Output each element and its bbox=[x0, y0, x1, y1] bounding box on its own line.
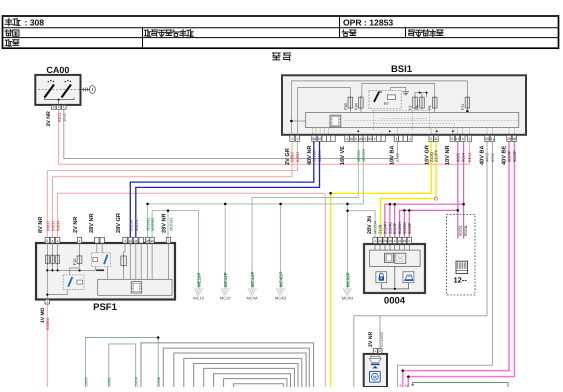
wire B58B0 red: PSF1 bottom pin1 down bbox=[46, 304, 48, 387]
0004 pin feeds bbox=[375, 244, 409, 251]
wire BM33 red: BSI1 2V GR pin1 to PSF1 pin4 bbox=[52, 142, 292, 238]
svg-text:MC4AP: MC4AP bbox=[250, 272, 255, 287]
bottom grey loop wire 2 bbox=[163, 348, 309, 387]
svg-text:34: 34 bbox=[368, 137, 372, 141]
schematic title (principle) bbox=[272, 53, 280, 60]
svg-text:2: 2 bbox=[124, 239, 126, 243]
svg-text:2: 2 bbox=[297, 137, 299, 141]
svg-text:8V NR: 8V NR bbox=[38, 217, 44, 233]
0004 lock icon bbox=[376, 272, 387, 283]
svg-text:11: 11 bbox=[398, 239, 402, 243]
svg-text:4: 4 bbox=[462, 137, 464, 141]
0004 IC symbol bbox=[384, 253, 393, 262]
svg-text:2V NR: 2V NR bbox=[368, 331, 374, 347]
key symbol bbox=[81, 86, 95, 94]
svg-text:8411M6D: 8411M6D bbox=[380, 331, 384, 347]
svg-text:F5: F5 bbox=[428, 105, 432, 109]
BSI1 internal wiring bbox=[291, 81, 467, 135]
body computer BSI1 bbox=[282, 64, 526, 135]
svg-text:C088: C088 bbox=[108, 377, 112, 386]
svg-text:2: 2 bbox=[374, 239, 376, 243]
bottom grey loop wire 5 bbox=[194, 364, 298, 388]
PSF1 bottom pin 1 bbox=[45, 300, 50, 305]
wire M05M3 from PSF1 pin7 bbox=[167, 211, 169, 238]
svg-text:29: 29 bbox=[383, 239, 387, 243]
fuse F5 bbox=[428, 96, 437, 110]
wire MC35I green: BSI1 to ground g3 bbox=[252, 142, 358, 289]
BSI1 dashed pin links bbox=[313, 128, 515, 135]
svg-text:20: 20 bbox=[485, 137, 489, 141]
svg-text:MC4D: MC4D bbox=[275, 296, 286, 301]
svg-text:12: 12 bbox=[129, 239, 133, 243]
svg-text:9023P: 9023P bbox=[512, 150, 517, 162]
svg-text:3: 3 bbox=[53, 105, 55, 109]
bottom grey loop wire 3 bbox=[174, 353, 306, 387]
wire 9024P pink bbox=[403, 142, 509, 387]
motor labels bbox=[368, 331, 384, 347]
CA00 labels bbox=[46, 111, 67, 127]
wire BM37 red: BSI1 2V GR pin2 to PSF1 pin5 bbox=[47, 142, 297, 238]
wire 9025 magenta: BSI1 to 12- connector and 0004 bbox=[457, 142, 459, 239]
wire Z12Q yellow: BSI1 to bottom bbox=[331, 142, 432, 387]
fuse F4 bbox=[416, 96, 425, 110]
fuse F30 bbox=[344, 96, 353, 110]
wire Z12PX yellow: BSI1 to 0004 pin14 bbox=[381, 142, 437, 238]
wire 9817A blue bbox=[136, 142, 320, 238]
svg-text:Q: Q bbox=[405, 384, 408, 388]
svg-text:2V NR: 2V NR bbox=[73, 217, 79, 233]
svg-text:3V NR: 3V NR bbox=[46, 111, 52, 127]
wire branch to 0004 pin2 bbox=[348, 211, 376, 238]
svg-text:M56M3: M56M3 bbox=[150, 217, 155, 231]
PSF1 pin row bbox=[45, 237, 171, 243]
svg-text:MC12P: MC12P bbox=[223, 272, 228, 287]
svg-text:9024: 9024 bbox=[461, 152, 466, 162]
CA00 pins 3 2 1 bbox=[51, 105, 66, 109]
svg-text:2: 2 bbox=[58, 105, 60, 109]
BSI1 internal ground bbox=[403, 92, 409, 95]
junction dot yellow bbox=[329, 192, 332, 195]
wire 4469 grey with branch to motor pin2 bbox=[354, 142, 487, 387]
BSI1 connector IC symbol bbox=[330, 115, 341, 127]
svg-text:M05M3: M05M3 bbox=[168, 217, 173, 231]
0004 internal top strip bbox=[370, 250, 421, 266]
PSF1 wire labels bbox=[45, 217, 173, 231]
svg-text:32: 32 bbox=[350, 137, 354, 141]
header row3: component bbox=[5, 39, 11, 46]
svg-text:1: 1 bbox=[79, 239, 81, 243]
0004 pin row bbox=[373, 237, 412, 243]
wire M56M3 green line B to ground g1 bbox=[152, 211, 199, 289]
svg-text:9017A: 9017A bbox=[134, 219, 139, 231]
svg-text:9024L: 9024L bbox=[463, 224, 468, 236]
bottom grey loop wire 8 bbox=[224, 379, 287, 387]
ground MC0H bbox=[342, 272, 353, 300]
PSF1 relay PT1 bbox=[91, 253, 110, 271]
svg-text:C40B: C40B bbox=[157, 377, 161, 387]
roof control unit 0004 bbox=[364, 244, 425, 307]
svg-text:9816A: 9816A bbox=[312, 150, 317, 162]
svg-text:F10: F10 bbox=[73, 259, 77, 266]
svg-text:40: 40 bbox=[359, 137, 363, 141]
svg-text:BM34: BM34 bbox=[56, 220, 61, 231]
svg-text:1: 1 bbox=[291, 137, 293, 141]
svg-text:28: 28 bbox=[507, 137, 511, 141]
ignition switch CA00 bbox=[35, 65, 91, 105]
PSF1 pin group labels bbox=[38, 213, 167, 233]
wire 8096 grey bbox=[397, 142, 492, 387]
PSF1 fuse SH bbox=[121, 255, 127, 268]
svg-text:BSI1: BSI1 bbox=[391, 64, 413, 75]
svg-text:8: 8 bbox=[365, 137, 367, 141]
svg-text:10: 10 bbox=[150, 239, 154, 243]
svg-text:1640: 1640 bbox=[62, 112, 67, 122]
BSI1 lower connector strip bbox=[306, 112, 519, 127]
BSI1 pin group labels bbox=[285, 145, 507, 165]
svg-text:MC10: MC10 bbox=[220, 296, 231, 301]
bottom grey loop wire 1 bbox=[141, 343, 314, 387]
bottom grey loop wire 9 bbox=[234, 384, 284, 387]
svg-text:F2: F2 bbox=[409, 105, 413, 109]
svg-text:9024P: 9024P bbox=[507, 150, 512, 162]
wire 9023P pink bbox=[408, 142, 514, 387]
svg-text:C40A: C40A bbox=[135, 377, 139, 387]
0004 internal bus bbox=[381, 266, 408, 289]
motor icon bbox=[370, 371, 381, 382]
PSF1 fuses MF5 MF8 MF1 bbox=[45, 254, 49, 265]
svg-text:PSF1: PSF1 bbox=[93, 302, 117, 313]
svg-text:MC0H: MC0H bbox=[342, 296, 353, 301]
svg-text:11: 11 bbox=[491, 137, 495, 141]
svg-text:4: 4 bbox=[408, 239, 410, 243]
svg-text:4: 4 bbox=[52, 239, 54, 243]
fuse F2 bbox=[409, 96, 418, 110]
fuse F34 bbox=[354, 96, 363, 110]
svg-text:38: 38 bbox=[513, 137, 517, 141]
PSF1 internal wiring bbox=[47, 243, 168, 300]
svg-text:4469: 4469 bbox=[485, 152, 490, 162]
svg-text:4: 4 bbox=[374, 137, 376, 141]
svg-text:7: 7 bbox=[168, 239, 170, 243]
svg-text:F30: F30 bbox=[344, 103, 348, 110]
svg-text:B4M7: B4M7 bbox=[295, 151, 300, 162]
motor connector symbol bbox=[369, 354, 381, 362]
svg-text:36: 36 bbox=[312, 137, 316, 141]
svg-text:28: 28 bbox=[146, 239, 150, 243]
svg-text:CA00: CA00 bbox=[46, 65, 69, 75]
svg-text:5: 5 bbox=[46, 239, 48, 243]
engine fusebox PSF1 bbox=[36, 243, 175, 313]
ground MC4A bbox=[247, 272, 258, 301]
svg-text:12--: 12-- bbox=[454, 276, 468, 285]
ground MC10 bbox=[193, 273, 204, 301]
svg-text:B0B3: B0B3 bbox=[290, 151, 295, 162]
svg-text:9025L: 9025L bbox=[457, 224, 462, 236]
svg-text:Z12PX: Z12PX bbox=[434, 149, 439, 162]
svg-text:28V NR: 28V NR bbox=[161, 213, 167, 233]
BSI1 relay R7 bbox=[369, 90, 401, 109]
svg-text:28V NR: 28V NR bbox=[89, 213, 95, 233]
roof motor unit bbox=[364, 354, 387, 387]
svg-text:MC4A: MC4A bbox=[247, 296, 258, 301]
svg-text:6: 6 bbox=[394, 239, 396, 243]
svg-text:9365: 9365 bbox=[395, 152, 400, 162]
svg-text:11: 11 bbox=[434, 137, 438, 141]
svg-text:9025F: 9025F bbox=[407, 222, 412, 234]
bottom green loop wire C004 bbox=[85, 338, 158, 388]
svg-text:MC10: MC10 bbox=[193, 296, 204, 301]
ground MC10 bbox=[220, 272, 231, 300]
PSF1 connector IC symbol bbox=[131, 282, 142, 293]
bottom grey loop wire 7 bbox=[214, 374, 291, 387]
motor pins bbox=[373, 349, 382, 354]
svg-text:F34: F34 bbox=[354, 103, 358, 110]
svg-text:BE11: BE11 bbox=[467, 152, 472, 162]
svg-text:MC4DP: MC4DP bbox=[279, 272, 284, 287]
svg-text:14: 14 bbox=[378, 239, 382, 243]
svg-text:6: 6 bbox=[469, 137, 471, 141]
bottom grey loop wire 4 bbox=[184, 358, 302, 387]
svg-text:8: 8 bbox=[355, 137, 357, 141]
PSF1 lower connector strip bbox=[98, 279, 172, 295]
PSF1 bottom labels bbox=[40, 307, 50, 330]
svg-text:: 308: : 308 bbox=[25, 18, 45, 28]
wire 9024 magenta: BSI1 to 12- connector and 0004 bbox=[463, 142, 465, 239]
wire 1640 grey: CA00 pin1 to BSI1 10V BA pin bbox=[64, 109, 398, 158]
svg-text:1: 1 bbox=[63, 105, 65, 109]
svg-text:11: 11 bbox=[134, 239, 138, 243]
svg-text:M: M bbox=[373, 374, 377, 379]
svg-text:19: 19 bbox=[388, 239, 392, 243]
wire BM34 red long: PSF1 pin1 across to bottom right bbox=[58, 193, 323, 237]
intermediate connector 12 bbox=[447, 215, 476, 296]
svg-text:16V VE: 16V VE bbox=[340, 146, 346, 165]
svg-text:ME10P: ME10P bbox=[197, 273, 202, 287]
svg-text:9817A: 9817A bbox=[317, 150, 322, 162]
svg-text:F4: F4 bbox=[416, 105, 420, 109]
ground MC4D bbox=[275, 272, 286, 301]
svg-text:C004: C004 bbox=[84, 377, 88, 386]
svg-text:R7: R7 bbox=[384, 102, 389, 106]
svg-text:0004: 0004 bbox=[384, 296, 406, 307]
header table bbox=[3, 16, 559, 48]
wire BE11 red: CA00 pin2 to BSI1 10V NR pin bbox=[59, 109, 470, 164]
bottom right green wire bbox=[413, 383, 508, 387]
BSI1 wire labels bbox=[290, 149, 517, 162]
svg-text:4: 4 bbox=[396, 137, 398, 141]
svg-text:37: 37 bbox=[318, 137, 322, 141]
BSI1 lower dashed detail bbox=[372, 110, 455, 131]
svg-text:B58B0: B58B0 bbox=[45, 317, 50, 330]
svg-text:1: 1 bbox=[46, 300, 48, 304]
svg-text:8096: 8096 bbox=[490, 152, 495, 162]
svg-text:6: 6 bbox=[451, 137, 453, 141]
svg-text:F11: F11 bbox=[461, 104, 465, 110]
svg-text:3: 3 bbox=[346, 137, 348, 141]
svg-text:12: 12 bbox=[456, 137, 460, 141]
splice circle on Z12PX bbox=[435, 197, 438, 200]
bottom grey loop wire 6 bbox=[204, 368, 295, 387]
svg-text:28V GR: 28V GR bbox=[116, 213, 122, 233]
header row2: scope / protection and doors / function / folding roof bbox=[5, 30, 443, 37]
wire 9816A blue bbox=[130, 142, 313, 238]
0004 diag box bbox=[395, 253, 406, 263]
PSF1 fuse F10 bbox=[73, 254, 82, 265]
0004 roof icon bbox=[403, 272, 414, 283]
svg-text:16: 16 bbox=[403, 239, 407, 243]
BSI1 pin row bbox=[290, 135, 517, 141]
bottom green loop wire C088 bbox=[109, 344, 136, 387]
svg-text:MC66P: MC66P bbox=[345, 272, 350, 287]
svg-text:MC35II: MC35II bbox=[361, 149, 366, 162]
fuse F11 bbox=[461, 96, 470, 110]
wire M56M1 green line A with ground drops bbox=[148, 142, 364, 238]
svg-text:5: 5 bbox=[430, 137, 432, 141]
svg-text:1: 1 bbox=[57, 239, 59, 243]
svg-text:9016A: 9016A bbox=[128, 219, 133, 231]
svg-text:OPR : 12853: OPR : 12853 bbox=[343, 18, 393, 28]
svg-text:10V NR: 10V NR bbox=[445, 145, 451, 165]
bottom green wire labels bbox=[84, 377, 161, 387]
PSF1 relay PT5 bbox=[63, 275, 84, 290]
svg-text:4: 4 bbox=[409, 137, 411, 141]
header text row1: vehicle 308 / OPR bbox=[5, 18, 393, 28]
0004 wire labels bbox=[373, 220, 412, 234]
